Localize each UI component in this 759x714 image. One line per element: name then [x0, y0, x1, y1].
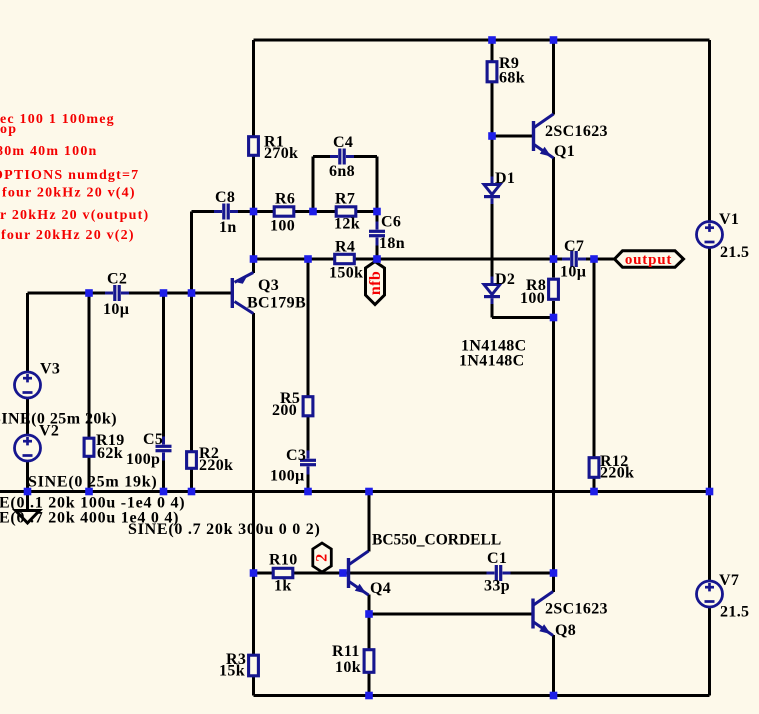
- svg-text:four 20kHz 20 v(4): four 20kHz 20 v(4): [2, 186, 136, 201]
- svg-text:10k: 10k: [335, 659, 361, 676]
- svg-text:D1: D1: [495, 170, 515, 187]
- svg-text:220k: 220k: [199, 457, 233, 474]
- svg-text:100: 100: [270, 218, 295, 235]
- wire V1 to mid row: [708, 246, 711, 492]
- net flag 2: [313, 543, 332, 572]
- svg-text:R11: R11: [332, 643, 360, 660]
- wire Q3 emitter column: [252, 212, 255, 274]
- resistor R1: [249, 137, 259, 156]
- svg-text:BC179B: BC179B: [247, 295, 306, 312]
- junction R7-C6: [373, 208, 381, 216]
- svg-text:V3: V3: [40, 361, 60, 378]
- wire R3 column: [252, 573, 255, 696]
- svg-text:R10: R10: [269, 552, 298, 569]
- wire D2 bottom: [492, 316, 554, 319]
- junction R2 bottom: [188, 488, 196, 496]
- junction Q8 emitter: [550, 692, 558, 700]
- wire V1 column: [708, 40, 711, 222]
- junction Q4 base: [339, 569, 347, 577]
- svg-text:33p: 33p: [484, 578, 510, 595]
- wire C4 left leg: [312, 157, 315, 212]
- wire Q8 base: [369, 613, 532, 616]
- svg-text:op: op: [0, 122, 17, 137]
- wire R2 column: [190, 212, 193, 492]
- wire C5 column: [162, 293, 165, 492]
- wire Q4 emitter down: [368, 595, 371, 615]
- svg-text:18n: 18n: [379, 235, 405, 252]
- diode D2: [484, 277, 501, 305]
- resistor R7: [336, 207, 356, 216]
- svg-text:V1: V1: [719, 211, 739, 228]
- wire bottom rail: [254, 694, 710, 697]
- wire R11 column: [368, 614, 371, 696]
- svg-text:OPTIONS numdgt=7: OPTIONS numdgt=7: [0, 168, 139, 183]
- resistor R8: [549, 279, 559, 299]
- wire V3-V2 link: [26, 397, 29, 437]
- capacitor C7: [562, 250, 586, 268]
- wire V2 bottom: [26, 460, 29, 492]
- transistor Q4: [347, 551, 369, 595]
- svg-text:C2: C2: [107, 271, 127, 288]
- wire C6 column: [376, 157, 379, 260]
- wire mid row to V7: [708, 492, 711, 583]
- junction D2-R8: [550, 314, 558, 322]
- junction R5 top: [304, 255, 312, 263]
- wire C8-R6-R7 row: [192, 210, 378, 213]
- capacitor C1: [487, 564, 511, 582]
- junction R4-nfb: [373, 255, 381, 263]
- svg-text:62k: 62k: [97, 445, 123, 462]
- wire R19 column: [88, 293, 91, 492]
- diode D1: [484, 177, 501, 205]
- wire Q1 base: [492, 135, 532, 138]
- capacitor C6: [368, 222, 386, 246]
- svg-text:SINE(0 25m 20k): SINE(0 25m 20k): [0, 410, 117, 427]
- svg-text:C8: C8: [215, 189, 235, 206]
- wire Q4 collector column: [368, 492, 371, 552]
- transistor Q3: [231, 273, 254, 314]
- junction R19 bottom: [85, 488, 93, 496]
- svg-text:200: 200: [272, 402, 297, 419]
- junction R10 left: [250, 569, 258, 577]
- transistor Q1: [532, 114, 554, 158]
- junction R9-D1: [488, 132, 496, 140]
- junction Q4 top: [365, 488, 373, 496]
- resistor R19: [84, 438, 94, 456]
- wire top rail: [254, 39, 710, 42]
- voltage source V3: [15, 372, 41, 398]
- svg-text:15k: 15k: [219, 662, 245, 679]
- net flag output: [615, 251, 684, 267]
- svg-text:10µ: 10µ: [560, 264, 586, 281]
- svg-text:270k: 270k: [264, 145, 298, 162]
- svg-text:R6: R6: [275, 191, 295, 208]
- svg-text:BC550_CORDELL: BC550_CORDELL: [372, 531, 501, 548]
- svg-text:four 20kHz 20 v(2): four 20kHz 20 v(2): [1, 228, 135, 243]
- svg-text:1n: 1n: [219, 219, 237, 236]
- junction C8-R1: [250, 208, 258, 216]
- svg-text:C7: C7: [564, 238, 584, 255]
- svg-text:1N4148C: 1N4148C: [459, 352, 525, 369]
- junction R1-Q3: [250, 255, 258, 263]
- resistor R12: [589, 458, 599, 478]
- junction C7-output: [590, 255, 598, 263]
- wire R12 column: [593, 259, 596, 492]
- voltage source V7: [697, 581, 723, 607]
- capacitor C4: [330, 148, 354, 166]
- svg-text:100µ: 100µ: [270, 467, 305, 484]
- resistor R2: [187, 452, 197, 469]
- svg-text:100: 100: [520, 290, 545, 307]
- svg-text:21.5: 21.5: [720, 604, 749, 621]
- junction Q4e-R11: [365, 610, 373, 618]
- svg-text:2SC1623: 2SC1623: [545, 123, 608, 140]
- resistor R4: [335, 254, 355, 263]
- junction C3 bottom: [304, 488, 312, 496]
- svg-text:Q1: Q1: [554, 143, 575, 160]
- wire V7 to bottom rail: [708, 607, 711, 696]
- junction R12 bottom: [590, 488, 598, 496]
- svg-text:C5: C5: [143, 431, 163, 448]
- resistor R9: [487, 62, 497, 82]
- svg-text:r 20kHz 20 v(output): r 20kHz 20 v(output): [0, 208, 149, 223]
- svg-text:D2: D2: [495, 271, 515, 288]
- junction V2 bottom: [24, 488, 32, 496]
- wire Q8 collector stub: [552, 573, 555, 592]
- junction R2 top: [188, 289, 196, 297]
- wire R9-D1-D2 column: [491, 40, 494, 318]
- svg-text:Q8: Q8: [555, 622, 576, 639]
- svg-text:2SC1623: 2SC1623: [545, 601, 608, 618]
- junction R19 top: [85, 289, 93, 297]
- junction C5 top: [160, 289, 168, 297]
- svg-text:150k: 150k: [329, 265, 363, 282]
- resistor R6: [274, 207, 294, 216]
- svg-text:220k: 220k: [600, 465, 634, 482]
- resistor R5: [303, 397, 313, 416]
- svg-text:Q4: Q4: [370, 580, 391, 597]
- svg-text:6n8: 6n8: [329, 163, 355, 180]
- junction V1 bottom: [706, 488, 714, 496]
- junction Q1 collector top: [550, 36, 558, 44]
- svg-text:C6: C6: [381, 214, 401, 231]
- wire R10-C1 row: [254, 572, 554, 575]
- svg-text:100p: 100p: [126, 451, 160, 468]
- voltage source V1: [697, 222, 723, 248]
- transistor Q8: [531, 592, 553, 636]
- junction R6-R7: [309, 208, 317, 216]
- wire R5-C3 column: [307, 259, 310, 492]
- svg-text:nfb: nfb: [367, 271, 384, 295]
- svg-text:80m 40m 100n: 80m 40m 100n: [0, 144, 98, 159]
- wire R4-C7-output row: [254, 258, 615, 261]
- wire C4 row: [313, 155, 377, 158]
- wire R1 column: [252, 40, 255, 212]
- junction C1 right: [550, 569, 558, 577]
- capacitor C3: [299, 451, 317, 475]
- junction Q1e-C7: [550, 255, 558, 263]
- wire Q8 emitter down: [552, 635, 555, 696]
- capacitor C2: [105, 284, 129, 302]
- resistor R10: [273, 568, 293, 577]
- wire Q1 emitter to R8: [552, 157, 555, 278]
- svg-text:1k: 1k: [274, 578, 292, 595]
- voltage source V2: [15, 435, 41, 461]
- junction R11 bottom: [365, 692, 373, 700]
- wire C2 row: [28, 292, 232, 295]
- svg-text:ec 100 1 100meg: ec 100 1 100meg: [0, 112, 115, 127]
- svg-text:R7: R7: [335, 191, 355, 208]
- svg-text:12k: 12k: [334, 215, 360, 232]
- capacitor C5: [155, 437, 173, 461]
- svg-text:21.5: 21.5: [720, 244, 749, 261]
- svg-text:SINE(0 .7 20k 300u 0 0 2): SINE(0 .7 20k 300u 0 0 2): [128, 521, 321, 538]
- svg-text:C1: C1: [487, 550, 507, 567]
- svg-text:2: 2: [314, 553, 331, 561]
- junction C5 bottom: [160, 488, 168, 496]
- wire ground stub: [26, 492, 29, 512]
- svg-text:10µ: 10µ: [103, 301, 129, 318]
- svg-text:output: output: [625, 252, 672, 268]
- capacitor C8: [214, 203, 238, 221]
- wire long mid row: [0, 490, 710, 493]
- svg-text:R4: R4: [335, 238, 355, 255]
- svg-text:SINE(0 25m 19k): SINE(0 25m 19k): [28, 474, 157, 491]
- wire V3 column top: [26, 293, 29, 373]
- svg-text:68k: 68k: [499, 70, 525, 87]
- svg-text:Q3: Q3: [258, 277, 279, 294]
- net flag nfb: [366, 262, 385, 305]
- wire R8 to C1 column: [552, 301, 555, 573]
- resistor R11: [364, 650, 374, 673]
- svg-text:C4: C4: [333, 134, 353, 151]
- resistor R3: [249, 655, 259, 676]
- wire Q3 collector column: [252, 313, 255, 573]
- junction R9 top: [488, 36, 496, 44]
- ground: [16, 511, 40, 524]
- svg-text:V7: V7: [719, 572, 739, 589]
- wire Q1 collector: [552, 40, 555, 115]
- svg-text:C3: C3: [286, 447, 306, 464]
